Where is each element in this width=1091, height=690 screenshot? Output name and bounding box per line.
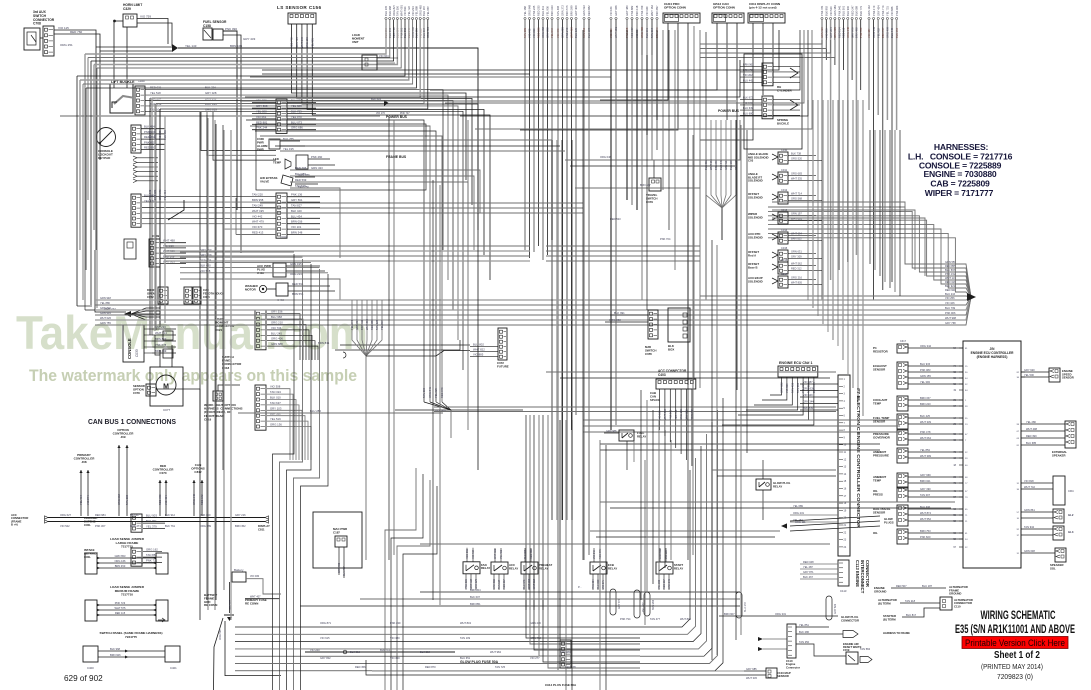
svg-text:COIL: COIL <box>84 523 91 527</box>
svg-text:PNK 225: PNK 225 <box>532 5 536 16</box>
svg-text:YEL 393: YEL 393 <box>920 380 930 384</box>
svg-text:VIO 308: VIO 308 <box>270 385 281 389</box>
svg-text:C158: C158 <box>203 24 211 28</box>
svg-text:BLU 105: BLU 105 <box>384 5 388 16</box>
svg-text:C400: C400 <box>87 666 94 670</box>
svg-text:YEL 500: YEL 500 <box>1024 373 1034 377</box>
svg-text:TAN 249: TAN 249 <box>252 204 263 208</box>
svg-text:PNK 340: PNK 340 <box>668 409 672 420</box>
svg-text:RED 316: RED 316 <box>945 280 956 284</box>
svg-text:VIO 101: VIO 101 <box>291 225 302 229</box>
svg-text:RED 399: RED 399 <box>1026 434 1037 438</box>
svg-text:WHT 998: WHT 998 <box>945 316 956 320</box>
svg-text:RED 342: RED 342 <box>200 494 204 505</box>
svg-text:BRN 263: BRN 263 <box>652 599 655 610</box>
svg-text:GRY 591: GRY 591 <box>291 198 303 202</box>
svg-text:GRN 559: GRN 559 <box>945 260 956 264</box>
svg-text:ORG 686: ORG 686 <box>291 126 303 130</box>
svg-text:J08: J08 <box>81 460 86 464</box>
svg-text:C016: C016 <box>781 258 788 262</box>
svg-text:YEL 981: YEL 981 <box>310 38 314 48</box>
svg-text:WHT 336: WHT 336 <box>494 548 497 559</box>
svg-text:WHT 694: WHT 694 <box>791 232 802 236</box>
svg-text:GRN 383: GRN 383 <box>833 5 837 16</box>
svg-text:BLK 972: BLK 972 <box>743 96 754 100</box>
svg-text:TAN 406: TAN 406 <box>556 5 560 16</box>
svg-text:TAN 109: TAN 109 <box>460 636 471 640</box>
svg-text:BRN 926: BRN 926 <box>110 653 121 657</box>
svg-text:WHT 335: WHT 335 <box>791 177 802 181</box>
svg-text:7209823 (0): 7209823 (0) <box>997 674 1033 681</box>
svg-text:GRY 768: GRY 768 <box>945 321 956 325</box>
svg-text:YEL 851: YEL 851 <box>799 623 809 627</box>
svg-text:BOX: BOX <box>668 348 674 352</box>
svg-text:7217715: 7217715 <box>121 545 133 549</box>
svg-text:BLU 442: BLU 442 <box>743 78 754 82</box>
svg-text:C049: C049 <box>152 234 160 238</box>
svg-text:VIO 256: VIO 256 <box>945 296 955 300</box>
svg-text:BRN 056: BRN 056 <box>291 220 303 224</box>
svg-text:Connector: Connector <box>786 665 801 669</box>
svg-text:BRN 851: BRN 851 <box>470 602 481 606</box>
svg-text:TAN 827: TAN 827 <box>291 204 302 208</box>
svg-text:PNK 152: PNK 152 <box>945 272 956 276</box>
svg-text:PNK 774: PNK 774 <box>881 5 885 16</box>
svg-text:CONNECTOR: CONNECTOR <box>865 560 870 587</box>
svg-text:WHT 714: WHT 714 <box>791 192 802 196</box>
svg-text:BRN 575: BRN 575 <box>565 5 569 16</box>
svg-text:WHT 552: WHT 552 <box>920 517 931 521</box>
svg-text:GRY 204: GRY 204 <box>829 27 833 38</box>
svg-text:CR4: CR4 <box>1068 489 1074 493</box>
svg-text:GRN 820: GRN 820 <box>100 306 111 310</box>
svg-text:FUTURE: FUTURE <box>497 365 509 369</box>
svg-text:VIO 277: VIO 277 <box>530 656 540 660</box>
svg-text:BRN 204: BRN 204 <box>470 588 481 592</box>
svg-text:BLK 725: BLK 725 <box>291 110 302 114</box>
svg-text:TAN 584: TAN 584 <box>860 647 871 651</box>
svg-text:GRY 028: GRY 028 <box>205 91 217 95</box>
svg-text:ORG 627: ORG 627 <box>60 513 72 517</box>
svg-text:OPTION CONN: OPTION CONN <box>664 6 687 10</box>
svg-text:RED 614: RED 614 <box>837 27 841 38</box>
svg-text:BLK 100: BLK 100 <box>291 209 302 213</box>
svg-text:VIO 874: VIO 874 <box>86 495 90 505</box>
svg-text:VIO 615: VIO 615 <box>320 636 330 640</box>
svg-text:TAN 453: TAN 453 <box>790 382 794 393</box>
svg-text:BLU 680: BLU 680 <box>743 111 754 115</box>
svg-text:VIO 705: VIO 705 <box>528 28 532 38</box>
svg-text:YEL 952: YEL 952 <box>876 28 880 38</box>
svg-text:YEL 687: YEL 687 <box>426 6 430 16</box>
svg-text:YEL 070: YEL 070 <box>291 115 302 119</box>
svg-text:PNK 136: PNK 136 <box>291 193 303 197</box>
svg-text:ORG 331: ORG 331 <box>775 612 787 616</box>
svg-text:YEL 280: YEL 280 <box>1026 420 1036 424</box>
svg-text:VALVE: VALVE <box>260 180 269 184</box>
svg-text:ORG 871: ORG 871 <box>320 621 332 625</box>
svg-text:BLU 958: BLU 958 <box>271 315 282 319</box>
svg-text:ORG 948: ORG 948 <box>528 4 532 16</box>
svg-text:PNK 820: PNK 820 <box>920 535 931 539</box>
svg-text:BLK 738: BLK 738 <box>791 152 802 156</box>
svg-text:C811: C811 <box>258 527 265 531</box>
svg-text:GRN 522: GRN 522 <box>582 5 586 16</box>
svg-text:C070: C070 <box>159 471 167 475</box>
svg-text:TAN 692: TAN 692 <box>796 382 800 393</box>
svg-text:VIO 106: VIO 106 <box>945 301 955 305</box>
svg-text:OIL: OIL <box>873 531 878 535</box>
svg-text:RED 766: RED 766 <box>295 166 307 170</box>
svg-text:VIO 759: VIO 759 <box>140 15 151 19</box>
svg-text:GRY 480: GRY 480 <box>625 5 629 16</box>
svg-text:C052: C052 <box>147 295 154 299</box>
svg-text:ORG 683: ORG 683 <box>791 172 803 176</box>
svg-text:YEL 143: YEL 143 <box>185 44 197 48</box>
svg-text:BLK 611: BLK 611 <box>704 160 708 170</box>
svg-text:SENSOR: SENSOR <box>873 510 886 514</box>
svg-text:LS SENSOR C156: LS SENSOR C156 <box>277 5 321 10</box>
svg-text:GROUND: GROUND <box>874 589 886 593</box>
svg-text:VIO 734: VIO 734 <box>271 326 282 330</box>
svg-text:VIO 042: VIO 042 <box>593 550 596 559</box>
svg-text:ORG 231: ORG 231 <box>793 511 805 515</box>
svg-text:RESISTOR: RESISTOR <box>873 349 889 353</box>
svg-text:M: M <box>163 384 169 391</box>
svg-text:RED 115: RED 115 <box>115 611 126 615</box>
svg-text:INTERCONNECT: INTERCONNECT <box>860 560 865 594</box>
svg-text:PNK 439: PNK 439 <box>390 621 401 625</box>
svg-text:TAN 293: TAN 293 <box>155 325 166 329</box>
svg-text:GL2: GL2 <box>1068 513 1074 517</box>
svg-text:BRN 499: BRN 499 <box>155 349 167 353</box>
svg-text:VIO 349: VIO 349 <box>645 6 649 16</box>
svg-text:PNK 882: PNK 882 <box>630 5 634 16</box>
svg-text:RED 356: RED 356 <box>355 665 366 669</box>
svg-text:GRY 344: GRY 344 <box>803 400 814 404</box>
svg-text:C077: C077 <box>163 408 171 412</box>
svg-text:RELAY: RELAY <box>608 566 617 570</box>
svg-text:BLU 639: BLU 639 <box>743 106 754 110</box>
svg-text:BLU 817: BLU 817 <box>906 613 917 617</box>
svg-text:C012: C012 <box>781 188 788 192</box>
svg-text:BLU 059: BLU 059 <box>295 172 306 176</box>
svg-text:GRY 679: GRY 679 <box>475 578 478 588</box>
svg-text:RED 870: RED 870 <box>425 665 436 669</box>
svg-text:ORG 568: ORG 568 <box>791 197 803 201</box>
svg-text:VIO 087: VIO 087 <box>803 380 813 384</box>
svg-text:RED 095: RED 095 <box>158 494 162 505</box>
svg-text:RED 086: RED 086 <box>466 548 469 558</box>
svg-text:ORG 162: ORG 162 <box>146 548 158 552</box>
svg-text:TAN 004: TAN 004 <box>650 27 654 38</box>
svg-text:TAN 007: TAN 007 <box>920 493 931 497</box>
svg-text:BLU 434: BLU 434 <box>291 214 302 218</box>
svg-text:VIO 118: VIO 118 <box>665 550 668 559</box>
svg-text:C03: C03 <box>748 159 754 163</box>
svg-text:Printable Version Click Here: Printable Version Click Here <box>965 638 1065 648</box>
svg-text:VIO 522: VIO 522 <box>658 410 662 420</box>
svg-text:RED 507: RED 507 <box>896 584 907 588</box>
svg-text:VIO 350: VIO 350 <box>390 656 400 660</box>
svg-text:TAN 250: TAN 250 <box>799 640 810 644</box>
svg-text:(B) TERM: (B) TERM <box>883 617 896 621</box>
svg-text:RED 855: RED 855 <box>945 264 956 268</box>
svg-text:WIRING SCHEMATIC: WIRING SCHEMATIC <box>981 610 1056 622</box>
svg-text:BLU 651: BLU 651 <box>460 656 471 660</box>
svg-text:RED 267: RED 267 <box>503 579 506 589</box>
svg-text:C329: C329 <box>123 7 131 11</box>
svg-text:YEL 837: YEL 837 <box>380 320 384 330</box>
svg-text:GRN 253: GRN 253 <box>561 27 565 38</box>
svg-text:TAN 637: TAN 637 <box>270 401 281 405</box>
svg-text:YEL 603: YEL 603 <box>291 104 302 108</box>
svg-text:RED 247: RED 247 <box>850 5 854 16</box>
svg-text:BLU 447: BLU 447 <box>719 159 723 170</box>
svg-text:GRY 390: GRY 390 <box>920 487 931 491</box>
svg-text:BLK 892: BLK 892 <box>825 5 829 16</box>
svg-text:C113 ENGINE: C113 ENGINE <box>855 560 860 587</box>
svg-text:RED 760: RED 760 <box>70 30 83 34</box>
svg-text:YEL 168: YEL 168 <box>523 6 527 16</box>
svg-text:BLK 779: BLK 779 <box>859 5 863 16</box>
svg-text:TEMP: TEMP <box>873 401 881 405</box>
svg-text:BLU 802: BLU 802 <box>473 343 484 347</box>
svg-text:TAN 477: TAN 477 <box>650 617 661 621</box>
svg-text:SPEAKER: SPEAKER <box>1052 453 1066 457</box>
svg-text:SOLENOID: SOLENOID <box>748 195 763 199</box>
svg-text:SPLICE: SPLICE <box>650 398 660 402</box>
svg-text:BLK 395: BLK 395 <box>729 159 733 170</box>
svg-text:BLK 430: BLK 430 <box>200 264 211 268</box>
svg-text:RELAY: RELAY <box>773 484 782 488</box>
svg-text:C055: C055 <box>645 352 652 356</box>
svg-text:ORG 409: ORG 409 <box>886 26 890 38</box>
svg-text:ORG 520: ORG 520 <box>791 157 803 161</box>
svg-text:GRN 553: GRN 553 <box>833 27 837 38</box>
svg-text:TAN 942: TAN 942 <box>1024 525 1035 529</box>
svg-text:PNK 090: PNK 090 <box>225 27 237 31</box>
svg-text:GRN 861: GRN 861 <box>1024 508 1035 512</box>
svg-text:629 of 902: 629 of 902 <box>64 674 103 683</box>
svg-text:VIO 470: VIO 470 <box>556 28 560 38</box>
svg-text:VIO 542: VIO 542 <box>60 524 70 528</box>
svg-text:WHT 498: WHT 498 <box>1026 427 1037 431</box>
svg-text:GRY 409: GRY 409 <box>574 5 578 16</box>
svg-text:Battery: Battery <box>234 568 244 572</box>
svg-text:TAN 550: TAN 550 <box>396 5 400 16</box>
svg-text:RED 048: RED 048 <box>803 560 814 564</box>
svg-text:WHT 920: WHT 920 <box>570 27 574 38</box>
svg-text:WHT 345: WHT 345 <box>746 676 757 680</box>
svg-text:HARNESSES:: HARNESSES: <box>934 142 989 152</box>
svg-text:WHT 285: WHT 285 <box>528 578 531 589</box>
svg-text:YEL 409: YEL 409 <box>435 409 446 413</box>
svg-text:BLU 216: BLU 216 <box>945 292 956 296</box>
svg-text:TAN 220: TAN 220 <box>252 193 263 197</box>
svg-text:VIO 930: VIO 930 <box>250 575 260 578</box>
svg-text:RED 684: RED 684 <box>95 513 106 517</box>
svg-text:GOVERNOR: GOVERNOR <box>873 435 891 439</box>
svg-text:YEL 379: YEL 379 <box>146 525 157 529</box>
svg-text:BLU 915: BLU 915 <box>920 362 931 366</box>
svg-text:WHT 407: WHT 407 <box>250 596 261 599</box>
svg-text:RED 119: RED 119 <box>674 409 678 420</box>
svg-text:GRY 066: GRY 066 <box>614 5 618 16</box>
svg-text:WHT 026: WHT 026 <box>100 316 111 320</box>
svg-text:ORG 251: ORG 251 <box>60 43 73 47</box>
svg-text:WHT 874: WHT 874 <box>920 511 931 515</box>
svg-text:C812: C812 <box>194 470 202 474</box>
svg-text:GRN 433: GRN 433 <box>311 166 323 170</box>
svg-text:WHT 195: WHT 195 <box>252 209 264 213</box>
svg-text:BLU 501: BLU 501 <box>842 5 846 16</box>
svg-text:WHT 064: WHT 064 <box>920 436 931 440</box>
svg-text:ORG 210: ORG 210 <box>271 321 283 325</box>
svg-text:HARNESS TO FRAME: HARNESS TO FRAME <box>883 631 910 635</box>
svg-text:BRN 157: BRN 157 <box>920 396 931 400</box>
svg-text:GROUND: GROUND <box>949 592 961 596</box>
svg-text:KEYPAD: KEYPAD <box>98 156 111 160</box>
svg-text:VIO 234: VIO 234 <box>411 6 415 16</box>
svg-text:GRY 568: GRY 568 <box>256 104 268 108</box>
svg-text:7217710: 7217710 <box>121 593 133 597</box>
svg-text:GRN 653: GRN 653 <box>115 554 126 558</box>
svg-text:BLU 172: BLU 172 <box>744 602 747 612</box>
svg-text:RED 312: RED 312 <box>791 267 802 271</box>
svg-text:C014: C014 <box>781 228 788 232</box>
svg-text:SOLENOID: SOLENOID <box>748 235 763 239</box>
svg-text:PRESS: PRESS <box>873 492 883 496</box>
svg-text:ORG 465: ORG 465 <box>418 4 422 16</box>
svg-text:TAN 187: TAN 187 <box>498 579 501 589</box>
svg-text:RELAY: RELAY <box>481 566 490 570</box>
svg-text:BLU 225: BLU 225 <box>574 27 578 38</box>
svg-text:ENGINE ECU CN# 1: ENGINE ECU CN# 1 <box>779 361 813 365</box>
svg-text:E35 (S/N AR1K11001 AND ABOVE: E35 (S/N AR1K11001 AND ABOVE <box>955 624 1075 636</box>
svg-text:CAN BUS 1 CONNECTIONS: CAN BUS 1 CONNECTIONS <box>88 417 176 426</box>
svg-text:VIO 883: VIO 883 <box>158 130 162 140</box>
svg-text:RED 115: RED 115 <box>842 27 846 38</box>
svg-text:VIO 164: VIO 164 <box>609 6 613 16</box>
svg-text:VIO 487: VIO 487 <box>867 28 871 38</box>
svg-text:YEL 274: YEL 274 <box>350 320 354 330</box>
svg-text:BRN 736: BRN 736 <box>338 562 341 573</box>
svg-text:WHT 349: WHT 349 <box>300 37 304 48</box>
svg-text:GRN 271: GRN 271 <box>130 524 141 528</box>
svg-text:C034: C034 <box>280 235 288 239</box>
svg-text:C033: C033 <box>135 349 139 357</box>
svg-text:YEL 853: YEL 853 <box>920 448 930 452</box>
svg-text:GRY 434: GRY 434 <box>876 5 880 16</box>
svg-text:PNK 244: PNK 244 <box>256 126 268 130</box>
svg-text:Rod A: Rod A <box>748 253 756 257</box>
svg-text:VIO 071: VIO 071 <box>602 580 605 589</box>
svg-text:GRY 103: GRY 103 <box>270 406 282 410</box>
svg-text:GRY 622: GRY 622 <box>780 382 784 393</box>
svg-text:PNK 270: PNK 270 <box>565 27 569 38</box>
svg-text:WHT 575: WHT 575 <box>115 606 126 610</box>
svg-text:VIO 666: VIO 666 <box>890 6 894 16</box>
svg-text:BLU 167: BLU 167 <box>422 5 426 16</box>
svg-text:C187: C187 <box>333 531 340 535</box>
svg-text:RED 676: RED 676 <box>440 387 444 398</box>
svg-text:RED 235: RED 235 <box>537 5 541 16</box>
svg-text:ORG 166: ORG 166 <box>115 559 127 563</box>
svg-text:C015: C015 <box>781 246 788 250</box>
svg-text:ORG 046: ORG 046 <box>600 155 612 159</box>
svg-text:GRY 070: GRY 070 <box>158 189 162 200</box>
svg-text:BRN 498: BRN 498 <box>855 27 859 38</box>
svg-text:VIO 520: VIO 520 <box>829 6 833 16</box>
svg-text:C113: C113 <box>840 589 847 593</box>
svg-text:GRY 433: GRY 433 <box>243 37 256 41</box>
svg-text:PNK 170: PNK 170 <box>872 5 876 16</box>
svg-text:RELAY: RELAY <box>539 566 548 570</box>
svg-text:WHT 081: WHT 081 <box>399 5 403 16</box>
svg-text:J09: J09 <box>120 435 125 439</box>
svg-text:WHT 681: WHT 681 <box>791 217 802 221</box>
svg-text:BRN 021: BRN 021 <box>920 479 931 483</box>
svg-text:C401: C401 <box>170 666 177 670</box>
svg-text:YEL 672: YEL 672 <box>550 28 554 38</box>
svg-text:SENSOR: SENSOR <box>777 674 789 678</box>
svg-text:TAN 228: TAN 228 <box>375 319 379 330</box>
svg-text:BRN 352: BRN 352 <box>235 524 246 528</box>
svg-text:ORG 590: ORG 590 <box>219 629 222 640</box>
svg-text:BLK 839: BLK 839 <box>803 406 814 410</box>
svg-text:VIO 115: VIO 115 <box>58 26 69 30</box>
svg-text:BLU 685: BLU 685 <box>1026 441 1037 445</box>
svg-text:YEL 195: YEL 195 <box>283 147 294 151</box>
svg-text:(PRINTED MAY 2014): (PRINTED MAY 2014) <box>981 662 1043 671</box>
svg-text:PNK 162: PNK 162 <box>148 189 152 200</box>
svg-text:VIO 598: VIO 598 <box>200 269 211 273</box>
svg-text:BLK 624: BLK 624 <box>371 97 382 101</box>
svg-text:VIO 061: VIO 061 <box>256 115 267 119</box>
svg-text:YEL 205: YEL 205 <box>658 579 661 589</box>
svg-text:VIO 439: VIO 439 <box>472 549 475 558</box>
svg-text:RED 984: RED 984 <box>148 129 152 140</box>
svg-text:RED 768: RED 768 <box>530 549 533 559</box>
svg-text:RELAY: RELAY <box>637 434 646 438</box>
svg-text:BLK 965: BLK 965 <box>163 129 167 140</box>
svg-text:(pin 4-12 not used): (pin 4-12 not used) <box>749 6 777 10</box>
svg-text:ORG 344: ORG 344 <box>920 344 932 348</box>
svg-text:SOLENOID: SOLENOID <box>748 215 763 219</box>
svg-text:RED 973: RED 973 <box>599 549 602 559</box>
svg-text:PNK 463: PNK 463 <box>895 5 899 16</box>
svg-text:YEL 518: YEL 518 <box>150 91 161 95</box>
svg-text:RE CONN: RE CONN <box>245 601 258 605</box>
svg-text:GRY 970: GRY 970 <box>850 27 854 38</box>
svg-text:GRY 802: GRY 802 <box>320 656 331 660</box>
svg-text:RELAY: RELAY <box>509 566 518 570</box>
svg-text:YEL 704: YEL 704 <box>79 495 83 505</box>
svg-text:ORG 528: ORG 528 <box>803 387 815 391</box>
svg-text:WHT 984: WHT 984 <box>490 650 501 654</box>
svg-text:The watermark only appears on: The watermark only appears on this sampl… <box>29 367 357 385</box>
svg-text:VIO 664: VIO 664 <box>379 54 389 58</box>
svg-text:YEL 888: YEL 888 <box>415 6 419 16</box>
svg-text:PWR: PWR <box>257 148 265 152</box>
svg-text:BLU 900: BLU 900 <box>846 5 850 16</box>
svg-text:GRY 685: GRY 685 <box>746 667 757 671</box>
svg-text:BLK 482: BLK 482 <box>524 549 527 559</box>
svg-text:VIO 442: VIO 442 <box>252 214 263 218</box>
svg-text:WHT 399: WHT 399 <box>920 454 931 458</box>
svg-text:GRN 988: GRN 988 <box>606 430 617 433</box>
